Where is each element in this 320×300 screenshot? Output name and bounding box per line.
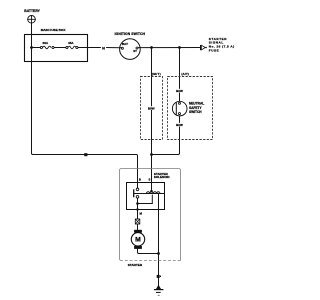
svg-text:SOLENOID: SOLENOID — [154, 175, 171, 179]
svg-text:BAT: BAT — [122, 42, 128, 46]
svg-text:60A: 60A — [43, 41, 49, 45]
svg-text:S: S — [148, 178, 150, 182]
svg-text:STARTER: STARTER — [128, 263, 143, 267]
svg-text:IGNITION SWITCH: IGNITION SWITCH — [115, 32, 146, 36]
svg-text:Bl/W: Bl/W — [176, 123, 183, 127]
svg-text:M: M — [135, 237, 141, 244]
svg-text:(A/T): (A/T) — [181, 72, 189, 76]
svg-text:SWITCH: SWITCH — [189, 110, 202, 114]
svg-text:FUSE: FUSE — [209, 49, 219, 53]
svg-text:45A: 45A — [68, 41, 74, 45]
svg-text:BATTERY: BATTERY — [24, 9, 40, 13]
svg-text:Bl/W: Bl/W — [148, 106, 155, 110]
svg-text:B: B — [139, 178, 141, 182]
svg-text:Bl/W: Bl/W — [176, 89, 183, 93]
svg-text:ST: ST — [133, 49, 137, 53]
svg-text:(M/T): (M/T) — [152, 72, 161, 76]
svg-text:MAIN FUSE BOX: MAIN FUSE BOX — [41, 28, 67, 32]
